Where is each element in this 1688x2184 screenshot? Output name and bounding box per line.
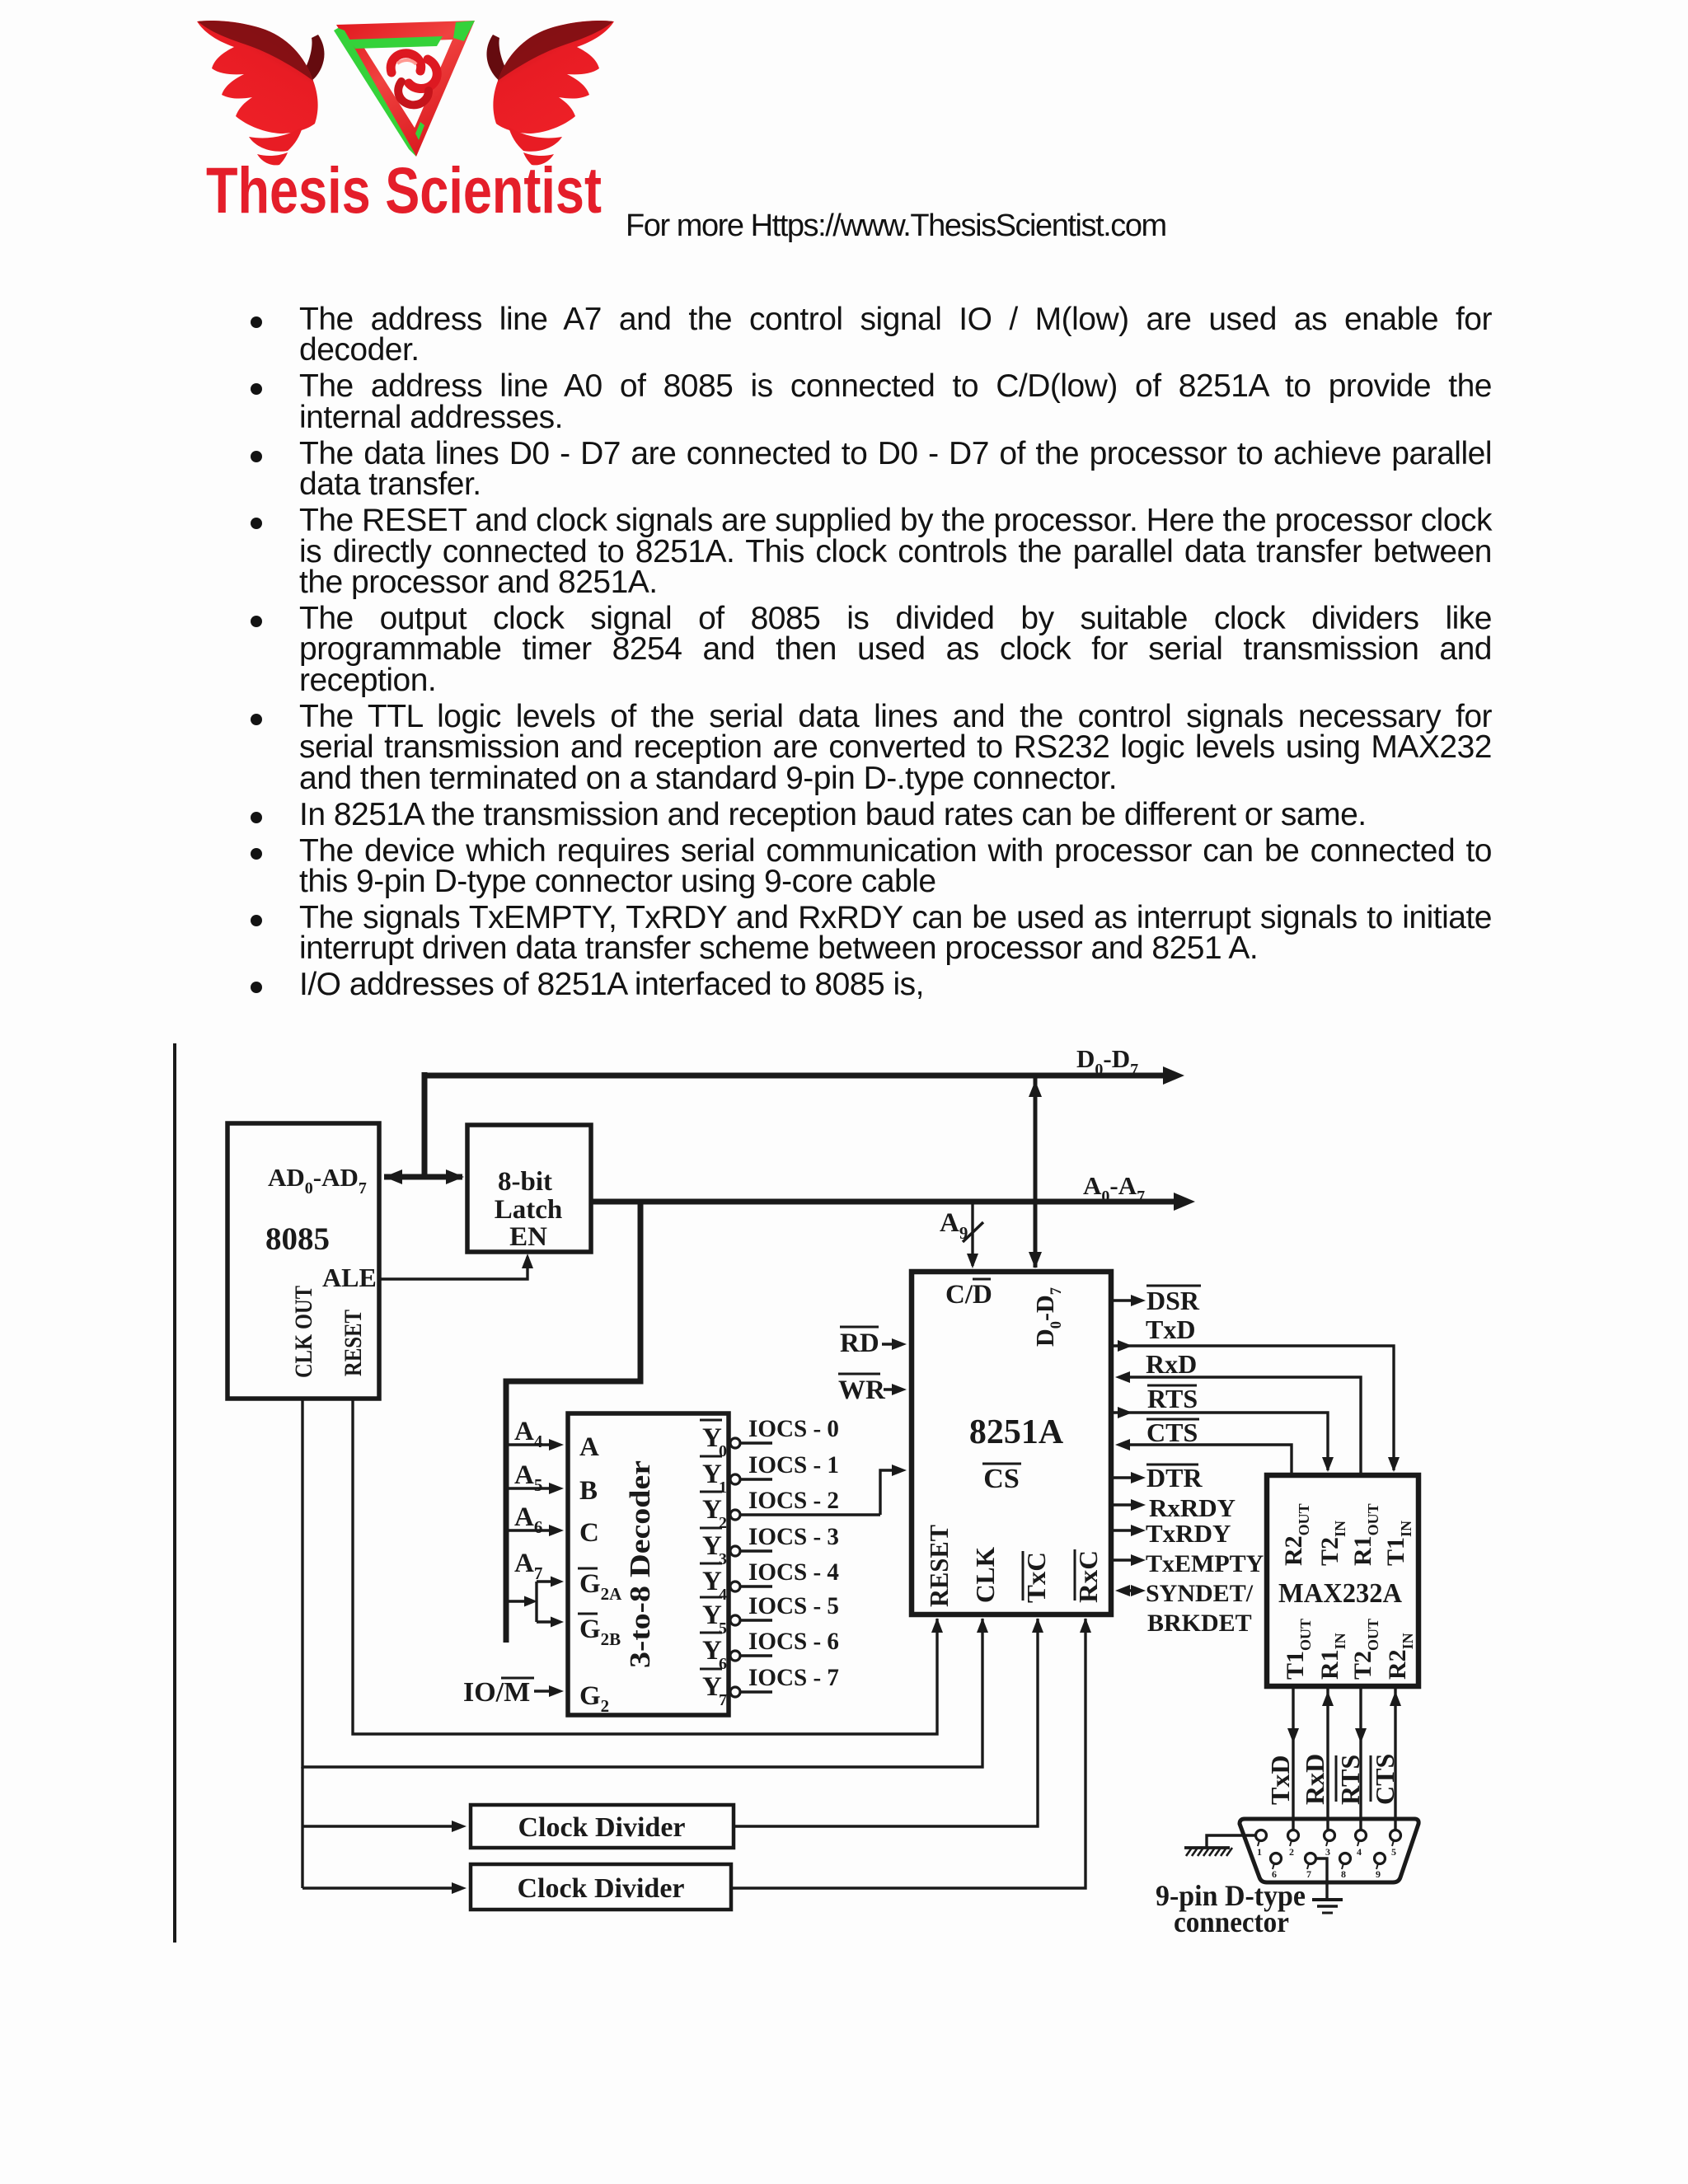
svg-text:IOCS - 2: IOCS - 2 (748, 1487, 839, 1514)
svg-text:3-to-8 Decoder: 3-to-8 Decoder (624, 1460, 656, 1668)
svg-text:1: 1 (1257, 1846, 1262, 1858)
svg-text:1: 1 (719, 1479, 727, 1497)
svg-text:0: 0 (719, 1442, 727, 1460)
svg-text:WR: WR (838, 1376, 886, 1405)
svg-text:TxEMPTY: TxEMPTY (1146, 1550, 1264, 1577)
svg-text:4: 4 (1357, 1846, 1362, 1858)
svg-text:MAX232A: MAX232A (1278, 1578, 1402, 1609)
svg-text:7: 7 (719, 1691, 727, 1709)
svg-text:TxC: TxC (1021, 1552, 1051, 1603)
svg-text:TxRDY: TxRDY (1146, 1519, 1231, 1548)
svg-text:R2IN: R2IN (1384, 1633, 1416, 1680)
svg-text:A9: A9 (940, 1208, 968, 1243)
svg-text:T1OUT: T1OUT (1282, 1619, 1314, 1680)
svg-text:8: 8 (1341, 1868, 1346, 1880)
svg-text:5: 5 (719, 1619, 727, 1638)
svg-text:8085: 8085 (265, 1221, 330, 1257)
svg-text:7: 7 (1306, 1868, 1311, 1880)
svg-text:A4: A4 (514, 1417, 543, 1451)
svg-text:R1OUT: R1OUT (1349, 1503, 1381, 1566)
svg-text:RxD: RxD (1146, 1349, 1197, 1379)
svg-text:8251A: 8251A (969, 1413, 1064, 1451)
svg-text:2: 2 (719, 1514, 727, 1532)
svg-text:6: 6 (1272, 1868, 1277, 1880)
svg-text:IOCS - 3: IOCS - 3 (748, 1523, 839, 1550)
svg-text:R2OUT: R2OUT (1280, 1503, 1312, 1566)
svg-text:RxD: RxD (1300, 1754, 1329, 1805)
svg-text:IOCS - 1: IOCS - 1 (748, 1451, 839, 1479)
svg-text:C: C (579, 1518, 599, 1548)
svg-text:6: 6 (719, 1655, 727, 1673)
svg-text:Clock Divider: Clock Divider (518, 1812, 685, 1843)
svg-text:A5: A5 (514, 1460, 542, 1495)
svg-text:TxD: TxD (1265, 1755, 1295, 1805)
svg-text:CTS: CTS (1370, 1754, 1400, 1805)
svg-text:A: A (579, 1432, 599, 1462)
svg-text:RESET: RESET (340, 1310, 367, 1376)
svg-text:IOCS - 4: IOCS - 4 (748, 1558, 839, 1586)
svg-text:TxD: TxD (1146, 1315, 1195, 1344)
svg-text:G2: G2 (579, 1681, 609, 1716)
svg-text:EN: EN (509, 1222, 547, 1252)
svg-text:ALE: ALE (322, 1263, 377, 1292)
svg-text:RTS: RTS (1147, 1384, 1198, 1413)
svg-text:AD0-AD7: AD0-AD7 (268, 1163, 367, 1197)
svg-text:connector: connector (1174, 1905, 1289, 1938)
svg-text:Latch: Latch (495, 1195, 563, 1225)
svg-text:RxRDY: RxRDY (1149, 1493, 1236, 1522)
svg-text:2: 2 (1289, 1846, 1294, 1858)
svg-text:DTR: DTR (1146, 1463, 1203, 1493)
svg-text:RxC: RxC (1073, 1550, 1103, 1603)
svg-text:D0-D7: D0-D7 (1030, 1287, 1065, 1347)
svg-text:RD: RD (840, 1329, 879, 1358)
svg-text:T1IN: T1IN (1382, 1521, 1414, 1566)
svg-text:T2OUT: T2OUT (1349, 1619, 1381, 1680)
svg-text:A6: A6 (514, 1502, 542, 1537)
svg-text:3: 3 (719, 1550, 727, 1568)
svg-text:R1IN: R1IN (1316, 1633, 1348, 1680)
svg-text:CLK: CLK (970, 1547, 1000, 1603)
svg-text:CTS: CTS (1146, 1418, 1198, 1447)
svg-text:IOCS - 6: IOCS - 6 (748, 1628, 839, 1655)
svg-text:3: 3 (1325, 1846, 1330, 1858)
svg-text:DSR: DSR (1146, 1286, 1200, 1315)
svg-text:IOCS - 0: IOCS - 0 (748, 1415, 839, 1442)
svg-text:BRKDET: BRKDET (1147, 1610, 1252, 1637)
svg-text:CS: CS (983, 1464, 1019, 1494)
svg-text:T2IN: T2IN (1316, 1521, 1348, 1566)
svg-text:RESET: RESET (924, 1525, 954, 1607)
svg-text:RTS: RTS (1335, 1755, 1365, 1805)
svg-text:G2B: G2B (579, 1615, 621, 1649)
svg-text:A7: A7 (514, 1549, 542, 1583)
svg-text:Clock Divider: Clock Divider (517, 1873, 684, 1904)
svg-text:5: 5 (1391, 1846, 1396, 1858)
svg-text:CLK OUT: CLK OUT (290, 1286, 317, 1378)
svg-text:G2A: G2A (579, 1569, 622, 1604)
svg-text:IOCS - 5: IOCS - 5 (748, 1592, 839, 1619)
svg-text:B: B (579, 1476, 598, 1506)
svg-text:9: 9 (1376, 1868, 1381, 1880)
svg-text:IO/M: IO/M (463, 1677, 530, 1708)
svg-text:C/D: C/D (945, 1280, 992, 1310)
svg-text:SYNDET/: SYNDET/ (1146, 1580, 1254, 1607)
svg-text:IOCS - 7: IOCS - 7 (748, 1664, 839, 1691)
svg-text:8-bit: 8-bit (498, 1167, 552, 1197)
